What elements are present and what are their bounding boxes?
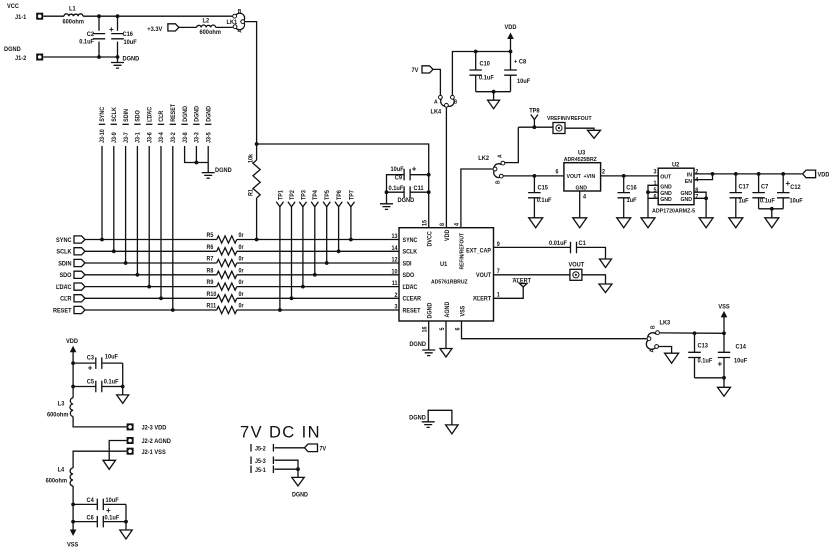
jumper LK2 pin A <box>501 161 505 165</box>
svg-text:L2: L2 <box>203 18 210 24</box>
svg-text:8: 8 <box>440 223 446 226</box>
node junction C5 right <box>121 385 125 389</box>
svg-text:7: 7 <box>497 269 500 275</box>
wire LK2 common to U1 REFIN pin <box>461 169 493 228</box>
wire J1-1 to L1 <box>43 15 64 17</box>
power flag 7V (DC in) <box>305 444 318 452</box>
wire R6 to U1 pin 14 <box>237 250 399 252</box>
svg-text:C7: C7 <box>761 184 769 190</box>
svg-text:6: 6 <box>555 169 558 175</box>
node junction C17 <box>734 172 738 176</box>
wire J5-3 to ground <box>275 460 299 469</box>
svg-text:0r: 0r <box>239 303 245 309</box>
jumper LK3 shunt arc <box>646 333 656 350</box>
svg-text:REFIN/REFOUT: REFIN/REFOUT <box>459 232 465 269</box>
svg-text:VDD: VDD <box>818 172 829 178</box>
svg-text:C2: C2 <box>87 32 95 38</box>
svg-text:J2-3 VDD: J2-3 VDD <box>142 425 167 431</box>
node junction J3-9 <box>112 249 116 253</box>
jumper LK1 shunt arc <box>236 13 245 29</box>
wire 7V to LK4 pin A <box>433 69 440 95</box>
capacitor C5 0.1uF <box>73 386 95 388</box>
svg-text:DGND: DGND <box>409 342 426 348</box>
ground AGND (U1) <box>440 349 452 358</box>
node junction C16b <box>622 174 626 178</box>
wire C1 to ground <box>577 247 606 259</box>
svg-text:B: B <box>238 9 242 15</box>
svg-text:C10: C10 <box>480 61 491 67</box>
svg-text:10uF: 10uF <box>391 167 405 173</box>
resistor R7 0R <box>217 259 237 266</box>
jumper LK2 pin B <box>499 174 503 178</box>
svg-text:ADP1720ARMZ-5: ADP1720ARMZ-5 <box>652 208 695 214</box>
inductor L1 600ohm <box>64 14 83 16</box>
ground AGND (tie) <box>446 425 459 434</box>
resistor R8 0R <box>217 271 237 278</box>
svg-text:C16: C16 <box>626 185 637 191</box>
svg-text:C15: C15 <box>538 185 549 191</box>
svg-text:10uF: 10uF <box>106 498 120 504</box>
capacitor C6 0.1uF <box>73 521 97 523</box>
svg-text:SCLK: SCLK <box>112 106 118 121</box>
svg-text:A: A <box>434 99 438 105</box>
wire C10/C8 ground rail <box>476 91 511 93</box>
svg-text:12: 12 <box>392 257 398 263</box>
jumper LK3 common <box>647 337 651 341</box>
svg-text:0.1uF: 0.1uF <box>760 198 775 204</box>
svg-text:VDD: VDD <box>505 25 518 31</box>
svg-text:ALERT: ALERT <box>513 278 532 284</box>
node junction EN <box>711 172 715 176</box>
svg-text:J3-8: J3-8 <box>183 132 189 143</box>
svg-text:C11: C11 <box>414 186 425 192</box>
jumper LK4 shunt arc <box>441 99 454 106</box>
svg-text:U1: U1 <box>440 262 448 268</box>
node junction C9 <box>427 173 431 177</box>
wire LK3 B to VSS rail <box>660 332 724 334</box>
connector J2-1 (VSS) <box>127 448 134 455</box>
node junction J3-2 <box>171 308 175 312</box>
svg-text:3: 3 <box>394 304 397 310</box>
DAC U1 AD5761RBRUZ <box>399 228 494 321</box>
node R1 to SYNC line <box>255 238 259 242</box>
svg-text:LDAC: LDAC <box>147 107 153 122</box>
svg-text:SDI: SDI <box>403 261 412 267</box>
svg-text:DGND: DGND <box>183 106 189 122</box>
wire C3/C5 right rail <box>122 363 124 395</box>
wire J3-7 to SDIN line <box>125 146 127 263</box>
svg-text:J3-6: J3-6 <box>147 132 153 143</box>
svg-text:B: B <box>650 325 656 329</box>
ground AGND (C4/C6) <box>120 530 132 539</box>
wire J3-2 to RESET line <box>172 146 174 310</box>
svg-text:DGND: DGND <box>409 415 426 421</box>
capacitor C16 10uF (polarized) <box>117 16 119 31</box>
wire J3-1 to SDO line <box>136 146 138 275</box>
svg-text:C6: C6 <box>87 515 95 521</box>
svg-text:+: + <box>718 360 723 369</box>
node junction TP6 <box>337 249 341 253</box>
svg-text:R5: R5 <box>207 233 214 239</box>
svg-text:R11: R11 <box>207 303 217 309</box>
node junction U2 gnd1 <box>646 190 650 194</box>
svg-text:6: 6 <box>653 194 656 200</box>
svg-text:J1-2: J1-2 <box>15 56 27 62</box>
regulator U2 ADP1720ARMZ-5 <box>658 168 694 205</box>
ground DGND (J1 input) <box>117 57 119 63</box>
svg-text:VSS: VSS <box>460 306 466 317</box>
wire U1 VOUT to connector <box>494 274 571 276</box>
svg-text:LK3: LK3 <box>660 320 671 326</box>
connector J2-3 (VDD) <box>127 423 134 430</box>
connector J5-3 <box>251 457 273 465</box>
svg-text:600ohm: 600ohm <box>46 478 67 484</box>
ground AGND (C13/C14) <box>723 378 725 388</box>
ground AGND (VREF) <box>588 130 601 138</box>
svg-text:0r: 0r <box>239 280 245 286</box>
svg-text:J5-3: J5-3 <box>255 459 266 465</box>
svg-text:SYNC: SYNC <box>403 238 418 244</box>
svg-text:C9: C9 <box>395 175 403 181</box>
svg-text:C13: C13 <box>698 343 709 349</box>
svg-text:C1: C1 <box>579 241 587 247</box>
svg-text:13: 13 <box>392 234 398 240</box>
wire U1 DGND pin <box>428 321 430 350</box>
svg-text:ADR4525BRZ: ADR4525BRZ <box>564 157 598 163</box>
ground DGND (U1) <box>422 350 435 356</box>
node junction J3-7 <box>124 261 128 265</box>
svg-text:10uF: 10uF <box>790 198 804 204</box>
svg-text:0r: 0r <box>239 256 245 262</box>
svg-text:TP4: TP4 <box>313 189 319 200</box>
wire U1 VSS pin to LK3 <box>462 321 647 339</box>
node junction C8/VDD <box>509 50 513 54</box>
svg-text:7V: 7V <box>412 68 419 74</box>
svg-text:VOUT: VOUT <box>476 273 491 279</box>
svg-text:1uF: 1uF <box>739 198 749 204</box>
node junction TP3 <box>301 285 305 289</box>
wire LK1 to DVCC rail <box>245 22 257 144</box>
svg-text:10uF: 10uF <box>124 40 138 46</box>
svg-text:10uF: 10uF <box>105 354 119 360</box>
node junction J3-6 <box>147 285 151 289</box>
node junction C13 <box>693 331 697 335</box>
node junction C9/C11 left <box>385 190 389 194</box>
svg-text:TP1: TP1 <box>278 190 284 200</box>
svg-text:0.1uF: 0.1uF <box>698 358 713 364</box>
ground AGND (C7/C12) <box>771 209 773 218</box>
wire J3-4 to CLR line <box>160 146 162 298</box>
wire J3-8 to ground rail <box>185 146 209 163</box>
wire C7/C12 ground rail <box>759 208 784 210</box>
svg-text:10: 10 <box>392 269 398 275</box>
svg-text:DGND: DGND <box>398 198 415 204</box>
svg-text:LK1: LK1 <box>226 20 237 26</box>
jumper LK3 pin A <box>655 345 659 349</box>
svg-text:1: 1 <box>653 181 656 187</box>
svg-text:B: B <box>495 180 501 184</box>
svg-text:+: + <box>88 363 93 372</box>
wire CLR to R10 <box>85 297 217 299</box>
resistor R9 0R <box>217 283 237 290</box>
wire LK4 common to U1 VDD pin <box>445 108 447 228</box>
wire VREF line <box>518 126 553 128</box>
node junction U2 gnd2 <box>704 196 708 200</box>
svg-text:L4: L4 <box>58 467 65 473</box>
svg-text:R9: R9 <box>207 280 214 286</box>
node junction C16/VCC <box>116 14 120 18</box>
wire C13/C14 ground rail <box>695 377 725 379</box>
svg-text:0r: 0r <box>239 245 245 251</box>
svg-text:CLR: CLR <box>60 296 72 302</box>
svg-text:C4: C4 <box>87 498 95 504</box>
svg-text:0.1uF: 0.1uF <box>79 39 94 45</box>
svg-text:IN: IN <box>687 172 692 178</box>
svg-text:RESET: RESET <box>53 308 72 314</box>
svg-text:600ohm: 600ohm <box>63 19 84 25</box>
wire SCLK to R6 <box>85 250 217 252</box>
svg-text:VREFIN/VREFOUT: VREFIN/VREFOUT <box>547 116 592 122</box>
wire J5 gnd down <box>297 469 299 477</box>
jumper LK4 common <box>445 103 449 107</box>
svg-text:DGND: DGND <box>215 168 232 174</box>
svg-text:SCLK: SCLK <box>403 249 418 255</box>
svg-text:TP3: TP3 <box>301 190 307 200</box>
node junction C2/VCC <box>97 14 101 18</box>
capacitor C8 10uF (polarized) <box>510 52 512 70</box>
jumper LK1 common <box>241 20 245 24</box>
svg-text:10uF: 10uF <box>517 79 531 85</box>
wire J2-1 to L4 <box>73 451 126 468</box>
voltage reference U3 ADR4525BRZ <box>564 163 601 191</box>
svg-text:VSS: VSS <box>718 304 729 310</box>
node junction C3 <box>71 361 75 365</box>
ground DGND (J3) <box>202 173 215 179</box>
capacitor C17 1uF <box>735 174 737 193</box>
svg-text:7V DC IN: 7V DC IN <box>240 424 321 442</box>
capacitor C3 10uF (polarized) <box>73 362 95 364</box>
svg-text:J3-9: J3-9 <box>112 132 118 143</box>
capacitor C11 0.1uF <box>387 191 405 193</box>
capacitor C4 10uF (polarized) <box>73 503 97 505</box>
node junction C13/C14 gnd <box>722 376 726 380</box>
resistor R6 0R <box>217 248 237 255</box>
resistor R11 0R <box>217 306 237 313</box>
node junction TP4 <box>313 273 317 277</box>
node junction J3-10 <box>100 238 104 242</box>
svg-text:5: 5 <box>440 327 446 330</box>
svg-text:+: + <box>106 506 111 515</box>
jumper LK4 pin A <box>439 95 443 99</box>
wire +3.3V to L2 <box>179 26 197 28</box>
svg-text:DGND: DGND <box>123 56 140 62</box>
wire J1-2 to caps <box>43 56 117 58</box>
power flag VSS (bottom) <box>70 530 77 537</box>
svg-text:600ohm: 600ohm <box>47 412 68 418</box>
resistor R1 10k <box>256 144 258 160</box>
wire R7 to U1 pin 12 <box>237 262 399 264</box>
capacitor C1 0.01uF <box>571 242 577 254</box>
node junction J3-3 gnd <box>195 161 199 165</box>
svg-text:1uF: 1uF <box>627 198 637 204</box>
wire J2-2 to ground <box>109 441 126 461</box>
wire DVCC rail <box>257 144 429 228</box>
wire L1 to LK1 pin B <box>83 15 232 17</box>
wire C4/C6 right rail <box>125 504 127 530</box>
svg-text:ALERT: ALERT <box>473 296 491 302</box>
svg-text:0r: 0r <box>239 233 245 239</box>
svg-text:TP2: TP2 <box>290 190 296 200</box>
svg-text:SDIN: SDIN <box>58 261 71 267</box>
svg-text:7V: 7V <box>320 446 327 452</box>
ground AGND (LK3) <box>665 353 679 363</box>
ground AGND (C16) <box>617 218 631 228</box>
node DVCC junction <box>255 142 259 146</box>
wire LK2 A to VREF line <box>505 127 518 162</box>
node junction C6 <box>71 520 75 524</box>
svg-text:C16: C16 <box>123 32 134 38</box>
svg-text:A: A <box>497 154 503 158</box>
svg-text:600ohm: 600ohm <box>200 30 221 36</box>
wire R8 to U1 pin 10 <box>237 274 399 276</box>
svg-text:TP5: TP5 <box>325 190 331 200</box>
connector J2-2 (AGND) <box>127 437 134 444</box>
ground DGND (C9/C11) <box>386 192 388 204</box>
node junction C10 <box>474 50 478 54</box>
node junction TP8 <box>533 125 537 129</box>
svg-text:SDIN: SDIN <box>124 109 130 122</box>
svg-text:DGND: DGND <box>194 106 200 122</box>
svg-text:TP7: TP7 <box>349 190 355 200</box>
ground AGND (U2 right) <box>705 198 707 218</box>
svg-text:SYNC: SYNC <box>56 238 72 244</box>
svg-text:10uF: 10uF <box>734 358 748 364</box>
ground DGND (J5) <box>292 477 304 486</box>
wire J5-2 to 7V flag <box>275 447 305 449</box>
wire SYNC to R5 <box>85 239 217 241</box>
svg-text:GND: GND <box>576 185 588 191</box>
jumper LK1 pin A <box>233 25 237 29</box>
svg-text:10k: 10k <box>248 153 254 163</box>
svg-text:L1: L1 <box>69 6 76 12</box>
node junction C7 <box>757 172 761 176</box>
svg-text:+3.3V: +3.3V <box>147 27 162 33</box>
ground DGND (tie) <box>422 422 435 428</box>
svg-text:DGND: DGND <box>206 106 212 122</box>
svg-text:3: 3 <box>653 169 656 175</box>
svg-text:DGND: DGND <box>427 303 433 319</box>
inductor L3 600ohm <box>72 395 74 398</box>
node junction C15 <box>533 174 537 178</box>
capacitor C15 0.1uF <box>533 176 535 193</box>
wire RESET to R11 <box>85 309 217 311</box>
svg-text:U3: U3 <box>578 150 586 156</box>
wire J3-9 to SCLK line <box>113 146 115 251</box>
capacitor C7 0.1uF <box>758 174 760 193</box>
svg-text:6: 6 <box>455 327 461 330</box>
svg-text:0.1uF: 0.1uF <box>104 379 119 385</box>
node junction TP5 <box>325 261 329 265</box>
ground AGND (C10/C8) <box>493 92 495 101</box>
power flag VDD (right) <box>803 170 816 178</box>
node junction TP1 <box>278 308 282 312</box>
node junction C7/C12 gnd <box>770 207 774 211</box>
svg-text:J3-5: J3-5 <box>206 132 212 143</box>
capacitor C16 1uF (reference) <box>623 176 625 193</box>
svg-text:LK4: LK4 <box>431 109 442 115</box>
svg-text:J3-3: J3-3 <box>194 132 200 143</box>
node junction C4/C6 gnd <box>124 520 128 524</box>
inductor L2 600ohm <box>197 25 216 27</box>
wire R5 to U1 pin 13 <box>237 239 399 241</box>
node junction C11 <box>427 190 431 194</box>
ground AGND (VOUT) <box>599 284 612 293</box>
svg-text:1: 1 <box>497 292 500 298</box>
svg-text:GND: GND <box>681 197 693 203</box>
wire U3 VIN to U2 OUT <box>601 175 659 177</box>
wire LK3 A to ground <box>659 347 672 354</box>
node junction TP2 <box>290 296 294 300</box>
ground AGND (U2 left) <box>647 198 649 218</box>
svg-text:R7: R7 <box>207 256 214 262</box>
svg-text:0.1uF: 0.1uF <box>479 75 494 81</box>
wire L2 to LK1 pin A <box>216 26 233 28</box>
svg-text:0.01uF: 0.01uF <box>549 241 567 247</box>
ground AGND (C15) <box>529 218 543 228</box>
svg-text:GND: GND <box>660 184 672 190</box>
wire LDAC to R9 <box>85 286 217 288</box>
node junction C4 <box>71 503 75 507</box>
svg-text:J2-1 VSS: J2-1 VSS <box>142 450 166 456</box>
jumper LK2 shunt arc <box>494 164 502 178</box>
svg-text:SYNC: SYNC <box>100 107 106 122</box>
resistor R5 0R <box>217 236 237 243</box>
svg-text:+: + <box>109 25 114 34</box>
wire LK2 B to U3 VOUT <box>503 175 564 177</box>
svg-text:VSS: VSS <box>67 542 78 548</box>
svg-text:AD5761RBRUZ: AD5761RBRUZ <box>431 279 468 285</box>
svg-text:0.1uF: 0.1uF <box>389 186 404 192</box>
jumper LK1 pin B <box>233 14 237 18</box>
svg-text:11: 11 <box>392 281 398 287</box>
svg-text:C14: C14 <box>736 344 747 350</box>
node junction ground rail <box>492 90 496 94</box>
capacitor C14 10uF (polarized) <box>723 333 725 352</box>
wire R9 to U1 pin 11 <box>237 286 399 288</box>
svg-text:J2-2 AGND: J2-2 AGND <box>142 439 172 445</box>
wire U2 IN rail to VDD flag <box>694 173 802 175</box>
svg-text:OUT: OUT <box>660 174 672 180</box>
svg-text:CLEAR: CLEAR <box>403 296 422 302</box>
svg-text:R6: R6 <box>207 245 214 251</box>
wire EXT_CAP to C1 <box>494 246 571 248</box>
svg-text:C3: C3 <box>87 355 95 361</box>
node junction J5 gnd <box>296 467 300 471</box>
svg-text:LDAC: LDAC <box>403 285 418 291</box>
svg-text:VOUT: VOUT <box>567 174 582 180</box>
net flag ALERT <box>520 284 527 288</box>
svg-text:J3-7: J3-7 <box>124 132 130 143</box>
connector J5-2 <box>251 444 273 452</box>
capacitor C9 10uF (polarized) <box>410 174 429 176</box>
node junction C16/DGND <box>116 55 120 59</box>
wire U1 AGND pin <box>445 321 447 349</box>
svg-text:J3-1: J3-1 <box>135 132 141 143</box>
node junction TP7 <box>349 238 353 242</box>
svg-text:2: 2 <box>394 293 397 299</box>
wire VREF connector to ground <box>565 128 594 130</box>
svg-text:TP6: TP6 <box>337 190 343 200</box>
